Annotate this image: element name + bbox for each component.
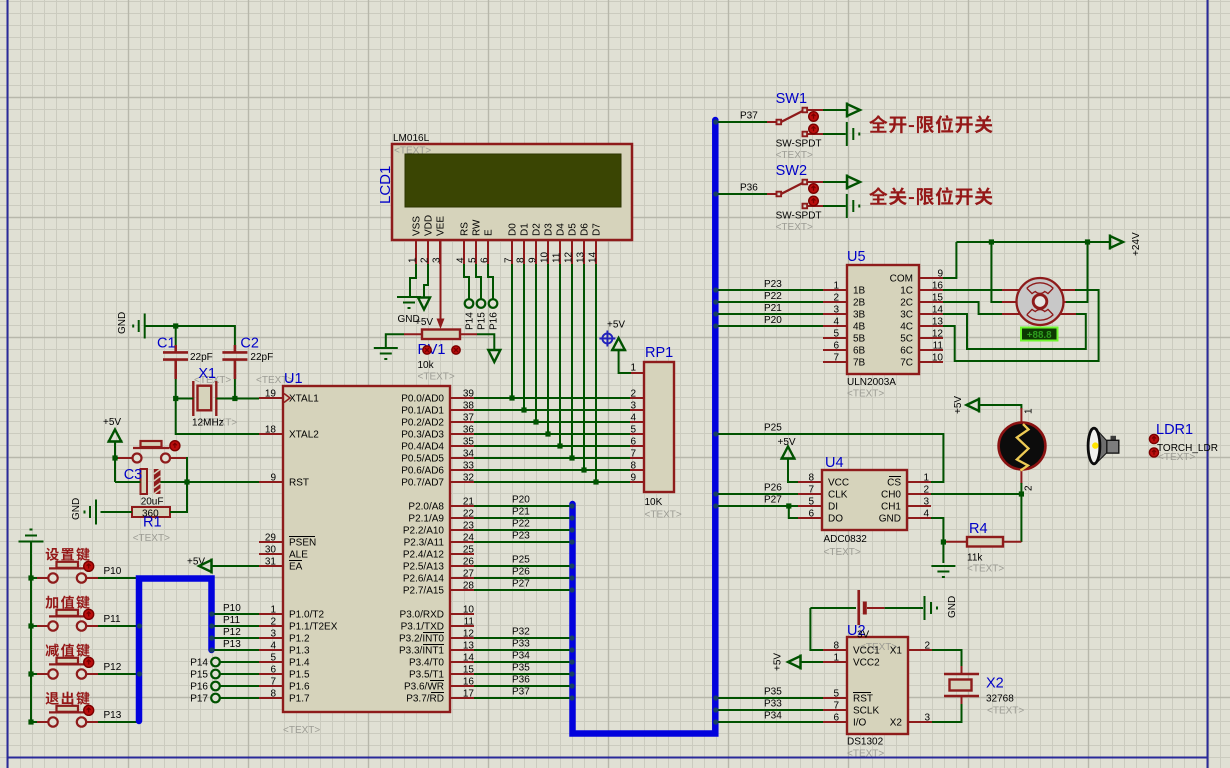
MCU U1 [259, 371, 474, 736]
svg-text:P3.1/TXD: P3.1/TXD [401, 622, 444, 633]
svg-text:D0: D0 [508, 223, 519, 236]
svg-text:C1: C1 [157, 336, 176, 352]
svg-text:9: 9 [630, 473, 636, 484]
svg-text:5: 5 [833, 329, 839, 340]
wire center tap right [1066, 242, 1088, 302]
switch SW1 SW-SPDT [767, 91, 823, 161]
battery 3V [810, 590, 923, 625]
bus taps [137, 119, 719, 724]
state dots RV1 [423, 346, 431, 354]
svg-text:3: 3 [924, 713, 930, 724]
svg-text:14: 14 [588, 251, 599, 263]
svg-text:1C: 1C [900, 286, 913, 297]
svg-text:RST: RST [853, 694, 873, 705]
wire RST node [115, 479, 259, 484]
wires P20-P23 bus to U5 [718, 279, 823, 326]
svg-text:X1: X1 [198, 366, 216, 382]
svg-text:P2.0/A8: P2.0/A8 [408, 502, 444, 513]
svg-text:DS1302: DS1302 [847, 737, 884, 748]
IC U2 DS1302 [823, 623, 932, 760]
svg-text:RP1: RP1 [645, 345, 673, 361]
svg-text:P36: P36 [512, 675, 530, 686]
svg-text:P15: P15 [190, 670, 208, 681]
svg-text:RS: RS [460, 222, 471, 236]
svg-text:4: 4 [923, 509, 929, 520]
svg-text:38: 38 [463, 401, 475, 412]
wire RV1 left to ground [374, 334, 404, 359]
wire XTAL1 net [173, 379, 259, 401]
svg-text:LDR1: LDR1 [1156, 422, 1193, 438]
svg-text:15: 15 [463, 665, 475, 676]
svg-text:C3: C3 [124, 467, 143, 483]
svg-text:P2.2/A10: P2.2/A10 [403, 526, 445, 537]
svg-text:SW-SPDT: SW-SPDT [776, 139, 822, 150]
svg-text:16: 16 [463, 677, 475, 688]
svg-text:3C: 3C [900, 310, 913, 321]
svg-text:X2: X2 [890, 718, 903, 729]
svg-text:P3.7/RD: P3.7/RD [406, 694, 444, 705]
svg-text:8: 8 [630, 461, 636, 472]
svg-text:P1.1/T2EX: P1.1/T2EX [289, 622, 338, 633]
svg-text:PSEN: PSEN [289, 538, 316, 549]
svg-text:P22: P22 [764, 291, 782, 302]
wire SW1 throw1 output [823, 103, 860, 118]
svg-text:13: 13 [576, 251, 587, 263]
svg-text:9: 9 [270, 473, 276, 484]
svg-text:P0.6/AD6: P0.6/AD6 [401, 466, 444, 477]
svg-text:6C: 6C [900, 346, 913, 357]
wires P10-P13 to U1 [213, 603, 259, 650]
svg-text:2: 2 [270, 617, 276, 628]
svg-text:31: 31 [265, 557, 277, 568]
wire LDR to CH0 [1020, 483, 1022, 494]
svg-text:VEE: VEE [436, 216, 447, 236]
svg-text:21: 21 [463, 497, 475, 508]
svg-text:4C: 4C [900, 322, 913, 333]
wire SW2 throw1 output [823, 175, 860, 190]
svg-text:RW: RW [472, 219, 483, 236]
svg-text:15: 15 [932, 293, 944, 304]
wire XTAL2 net [176, 399, 259, 435]
power +5V at VDD [415, 264, 433, 328]
power +5V VCC2 [773, 653, 824, 671]
svg-text:VCC1: VCC1 [853, 646, 880, 657]
ground button rail [19, 530, 44, 723]
svg-text:P0.2/AD2: P0.2/AD2 [401, 418, 444, 429]
svg-text:16: 16 [932, 281, 944, 292]
svg-text:1: 1 [1024, 408, 1035, 414]
potentiometer RV1 10k [404, 330, 477, 383]
svg-text:5: 5 [833, 689, 839, 700]
svg-text:P34: P34 [512, 651, 530, 662]
wire P36 bus to SW2 [718, 183, 768, 195]
svg-text:8: 8 [270, 689, 276, 700]
svg-text:P3.4/T0: P3.4/T0 [409, 658, 444, 669]
svg-text:<TEXT>: <TEXT> [967, 564, 1004, 575]
svg-text:+24V: +24V [1131, 232, 1142, 256]
power +5V EA [187, 557, 259, 574]
svg-text:VCC2: VCC2 [853, 658, 880, 669]
svg-text:10: 10 [540, 251, 551, 263]
svg-text:4: 4 [833, 317, 839, 328]
svg-text:+5V: +5V [187, 557, 205, 568]
svg-text:<TEXT>: <TEXT> [776, 222, 813, 233]
svg-text:9: 9 [528, 257, 539, 263]
svg-text:2: 2 [1024, 485, 1035, 491]
svg-text:35: 35 [463, 437, 475, 448]
svg-text:D5: D5 [568, 223, 579, 236]
push button P10 设置键 [36, 548, 99, 583]
svg-text:P0.5/AD5: P0.5/AD5 [401, 454, 444, 465]
wire 3C to motor [943, 314, 1086, 349]
svg-text:P2.1/A9: P2.1/A9 [408, 514, 444, 525]
svg-text:D2: D2 [532, 223, 543, 236]
svg-text:P3.6/WR: P3.6/WR [404, 682, 444, 693]
svg-text:1: 1 [630, 363, 636, 374]
svg-text:6: 6 [808, 509, 814, 520]
LCD LCD1 LM016L [377, 133, 632, 264]
svg-text:11: 11 [933, 341, 944, 352]
label 全关-限位开关 [869, 187, 993, 205]
wire X2 to crystal [932, 704, 962, 722]
svg-text:5B: 5B [853, 334, 866, 345]
svg-text:+5V: +5V [415, 317, 433, 328]
switch SW2 SW-SPDT [767, 163, 823, 233]
svg-text:<TEXT>: <TEXT> [645, 510, 682, 521]
svg-text:22pF: 22pF [190, 352, 213, 363]
svg-text:P2.3/A11: P2.3/A11 [404, 538, 445, 549]
svg-text:<TEXT>: <TEXT> [847, 389, 884, 400]
wire P37 bus to SW1 [718, 111, 768, 123]
svg-text:20uF: 20uF [141, 497, 164, 508]
svg-text:P27: P27 [512, 579, 530, 590]
svg-text:SW2: SW2 [776, 163, 807, 179]
svg-text:1: 1 [923, 473, 929, 484]
svg-text:U1: U1 [284, 371, 303, 387]
power +5V reset [103, 417, 123, 482]
terminals P14 P15 P16 under LCD [464, 264, 500, 330]
svg-text:ALE: ALE [289, 550, 308, 561]
svg-text:XTAL1: XTAL1 [289, 394, 319, 405]
svg-text:P3.3/INT1: P3.3/INT1 [399, 646, 444, 657]
svg-text:7B: 7B [853, 358, 866, 369]
svg-text:27: 27 [463, 569, 475, 580]
wires P0 bus to RP1 [474, 398, 630, 482]
svg-text:+5V: +5V [773, 653, 784, 671]
torch icon [1088, 428, 1119, 464]
svg-text:32768: 32768 [986, 694, 1014, 705]
svg-text:14: 14 [932, 305, 944, 316]
svg-text:P34: P34 [764, 711, 782, 722]
svg-text:6: 6 [833, 713, 839, 724]
svg-text:7: 7 [630, 449, 636, 460]
svg-text:P2.5/A13: P2.5/A13 [403, 562, 445, 573]
IC U4 ADC0832 [798, 455, 931, 558]
svg-text:P1.2: P1.2 [289, 634, 310, 645]
wire P12 [28, 662, 137, 677]
svg-text:2: 2 [630, 389, 636, 400]
svg-text:7C: 7C [900, 358, 913, 369]
svg-text:5: 5 [468, 257, 479, 263]
svg-text:<TEXT>: <TEXT> [987, 706, 1024, 717]
svg-text:10: 10 [463, 605, 475, 616]
svg-text:P26: P26 [764, 483, 782, 494]
svg-text:R4: R4 [969, 521, 988, 537]
wire SW2 throw2 to ground [823, 194, 859, 218]
svg-text:D6: D6 [580, 223, 591, 236]
svg-text:10K: 10K [645, 497, 663, 508]
svg-text:18: 18 [265, 425, 277, 436]
svg-text:23: 23 [463, 521, 475, 532]
svg-text:25: 25 [463, 545, 475, 556]
svg-text:2: 2 [420, 257, 431, 263]
svg-text:P11: P11 [223, 615, 240, 626]
resistor pack RP1 10K [630, 345, 682, 521]
svg-text:12: 12 [932, 329, 944, 340]
svg-text:P35: P35 [764, 687, 782, 698]
ground top-left [117, 312, 145, 339]
svg-text:3V: 3V [857, 630, 870, 641]
wires P2/P3 to bus [474, 495, 570, 699]
svg-text:P13: P13 [223, 639, 241, 650]
svg-text:P13: P13 [104, 710, 122, 721]
svg-text:GND: GND [71, 498, 82, 520]
svg-text:7: 7 [504, 257, 515, 263]
svg-text:P1.3: P1.3 [289, 646, 310, 657]
svg-text:P2.7/A15: P2.7/A15 [403, 586, 445, 597]
svg-text:P23: P23 [764, 279, 782, 290]
svg-text:14: 14 [463, 653, 475, 664]
svg-text:11: 11 [464, 617, 475, 628]
svg-text:U5: U5 [847, 249, 866, 265]
wire P27 to DI DO [718, 495, 798, 519]
svg-text:7: 7 [833, 353, 839, 364]
svg-text:P16: P16 [190, 682, 208, 693]
svg-text:11: 11 [552, 252, 563, 263]
state dot reset button [170, 441, 180, 451]
svg-text:COM: COM [890, 274, 913, 285]
svg-text:P36: P36 [740, 183, 758, 194]
wire P13 [28, 710, 137, 725]
svg-text:3: 3 [630, 401, 636, 412]
svg-text:10: 10 [932, 353, 944, 364]
svg-text:<TEXT>: <TEXT> [824, 547, 861, 558]
svg-text:P0.4/AD4: P0.4/AD4 [401, 442, 444, 453]
wire P11 [28, 614, 137, 629]
wire reset button [115, 458, 187, 482]
svg-text:6B: 6B [853, 346, 866, 357]
svg-text:8: 8 [516, 257, 527, 263]
wires P35 P33 P34 [718, 687, 823, 723]
svg-text:P10: P10 [104, 566, 122, 577]
ground battery [925, 596, 959, 620]
svg-text:VDD: VDD [424, 215, 435, 236]
svg-text:7: 7 [833, 701, 839, 712]
svg-text:P1.0/T2: P1.0/T2 [289, 610, 324, 621]
svg-text:28: 28 [463, 581, 475, 592]
wire 2C to motor [943, 302, 1002, 314]
svg-text:6: 6 [630, 437, 636, 448]
svg-text:34: 34 [463, 449, 475, 460]
svg-text:8: 8 [833, 641, 839, 652]
svg-text:P0.1/AD1: P0.1/AD1 [401, 406, 444, 417]
svg-text:P0.0/AD0: P0.0/AD0 [401, 394, 444, 405]
svg-text:P12: P12 [223, 627, 241, 638]
svg-text:12MHz: 12MHz [192, 418, 224, 429]
wire P10 [28, 566, 137, 581]
stepper motor [1002, 278, 1076, 325]
svg-text:P16: P16 [489, 312, 500, 330]
resistor R1 360 [132, 507, 170, 544]
svg-text:P11: P11 [104, 614, 121, 625]
svg-text:30: 30 [265, 545, 277, 556]
svg-text:U4: U4 [825, 455, 844, 471]
push button reset [117, 441, 186, 463]
svg-text:P17: P17 [190, 694, 208, 705]
svg-text:39: 39 [463, 389, 475, 400]
svg-text:ULN2003A: ULN2003A [847, 377, 896, 388]
svg-text:17: 17 [463, 689, 475, 700]
svg-text:2: 2 [833, 293, 839, 304]
power +5V LDR [953, 396, 1021, 414]
wire SW1 throw2 to ground [823, 122, 859, 146]
svg-text:P22: P22 [512, 519, 530, 530]
svg-text:P27: P27 [764, 495, 782, 506]
svg-text:<TEXT>: <TEXT> [776, 150, 813, 161]
push button P11 加值键 [36, 596, 99, 631]
crystal X2 32768 [944, 666, 1024, 717]
terminals P14-P17 [190, 658, 259, 705]
svg-text:DI: DI [828, 502, 838, 513]
svg-text:8: 8 [808, 473, 814, 484]
svg-text:6: 6 [270, 665, 276, 676]
svg-text:P10: P10 [223, 603, 241, 614]
wire COM to +24V rail [943, 242, 956, 278]
svg-text:P14: P14 [190, 658, 208, 669]
svg-text:2C: 2C [900, 298, 913, 309]
svg-text:5: 5 [270, 653, 276, 664]
state dots LDR [1149, 434, 1158, 443]
svg-text:4: 4 [630, 413, 636, 424]
svg-text:X2: X2 [986, 676, 1004, 692]
svg-text:D1: D1 [520, 223, 531, 236]
svg-text:<TEXT>: <TEXT> [283, 725, 320, 736]
svg-text:3: 3 [270, 629, 276, 640]
wire battery to VCC1 [810, 608, 823, 650]
svg-text:C2: C2 [240, 336, 259, 352]
state dots SW2 [809, 184, 819, 194]
wire P26 to CLK [718, 483, 798, 495]
svg-text:VCC: VCC [828, 478, 849, 489]
svg-text:RST: RST [289, 478, 309, 489]
svg-text:2: 2 [923, 485, 929, 496]
svg-text:5: 5 [630, 425, 636, 436]
svg-text:GND: GND [947, 596, 958, 618]
svg-text:D4: D4 [556, 223, 567, 236]
svg-text:P15: P15 [477, 312, 488, 330]
svg-text:P25: P25 [764, 423, 782, 434]
wire P25 to CS [718, 423, 943, 483]
svg-text:P37: P37 [740, 111, 758, 122]
svg-text:P0.3/AD3: P0.3/AD3 [401, 430, 444, 441]
svg-text:P35: P35 [512, 663, 530, 674]
svg-text:1: 1 [270, 605, 276, 616]
svg-text:<TEXT>: <TEXT> [394, 146, 431, 157]
wires LCD data D0-D7 [509, 264, 598, 485]
svg-text:X1: X1 [890, 646, 903, 657]
svg-text:7: 7 [270, 677, 276, 688]
svg-text:P20: P20 [512, 495, 530, 506]
svg-text:P37: P37 [512, 687, 530, 698]
svg-text:P20: P20 [764, 315, 782, 326]
power +5V RP1 [607, 320, 631, 374]
svg-text:EA: EA [289, 562, 303, 573]
svg-text:9: 9 [937, 269, 943, 280]
svg-text:GND: GND [879, 514, 901, 525]
wire 4C to motor [943, 290, 1099, 361]
svg-text:1: 1 [833, 653, 839, 664]
push button P12 减值键 [36, 644, 99, 679]
svg-text:<TEXT>: <TEXT> [1158, 452, 1195, 463]
svg-text:12: 12 [463, 629, 475, 640]
svg-text:+88.8: +88.8 [1027, 330, 1052, 341]
svg-text:11k: 11k [967, 553, 983, 564]
svg-text:P1.6: P1.6 [289, 682, 310, 693]
resistor R4 11k [946, 521, 1021, 575]
svg-text:19: 19 [265, 389, 277, 400]
svg-text:1B: 1B [853, 286, 866, 297]
svg-text:P26: P26 [512, 567, 530, 578]
IC U5 ULN2003A [823, 249, 943, 400]
svg-text:P1.5: P1.5 [289, 670, 310, 681]
svg-text:P2.4/A12: P2.4/A12 [403, 550, 445, 561]
svg-text:22pF: 22pF [250, 352, 273, 363]
ground R1 [71, 498, 96, 525]
svg-text:3: 3 [923, 497, 929, 508]
svg-text:P1.7: P1.7 [289, 694, 310, 705]
svg-text:<TEXT>: <TEXT> [847, 749, 884, 760]
crystal X1 12MHz [192, 366, 293, 429]
svg-text:DO: DO [828, 514, 843, 525]
svg-text:5C: 5C [900, 334, 913, 345]
wire X1 to crystal [932, 650, 962, 666]
svg-text:33: 33 [463, 461, 475, 472]
power +24V rail [956, 232, 1142, 256]
state dot P11 [84, 609, 94, 619]
svg-text:CS: CS [887, 478, 901, 489]
svg-text:2B: 2B [853, 298, 866, 309]
svg-text:E: E [484, 229, 495, 236]
svg-text:6: 6 [480, 257, 491, 263]
svg-text:26: 26 [463, 557, 475, 568]
svg-text:+5V: +5V [607, 320, 625, 331]
svg-text:XTAL2: XTAL2 [289, 430, 319, 441]
svg-text:P21: P21 [512, 507, 530, 518]
svg-text:<TEXT>: <TEXT> [418, 372, 455, 383]
svg-text:SW1: SW1 [776, 91, 807, 107]
labels LDR1 [1156, 422, 1218, 463]
svg-text:4: 4 [270, 641, 276, 652]
state dot P10 [84, 561, 94, 571]
svg-text:+5V: +5V [778, 437, 796, 448]
svg-text:22: 22 [463, 509, 475, 520]
wire CH0 node [931, 491, 1024, 542]
capacitor C3 20uF [124, 467, 164, 508]
svg-text:P14: P14 [465, 312, 476, 330]
svg-text:D3: D3 [544, 223, 555, 236]
wire gnd rail to C1 C2 [145, 323, 235, 345]
svg-text:+5V: +5V [953, 396, 964, 414]
